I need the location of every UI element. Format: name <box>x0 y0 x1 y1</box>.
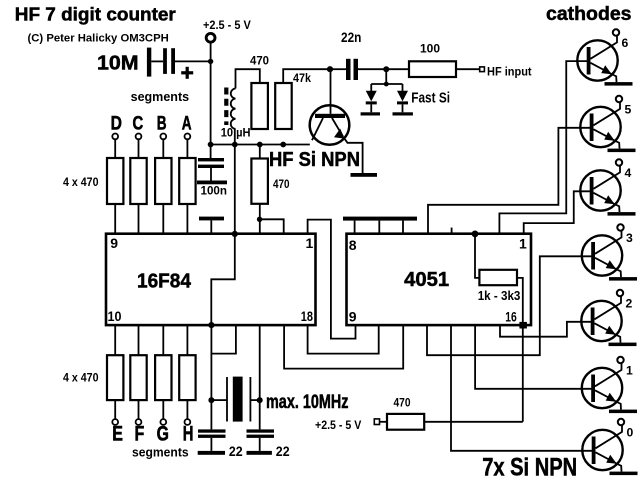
svg-text:segments: segments <box>131 89 190 104</box>
svg-text:B: B <box>157 112 167 134</box>
svg-text:4051: 4051 <box>404 269 449 291</box>
svg-text:9: 9 <box>349 309 357 325</box>
svg-text:22: 22 <box>229 443 243 459</box>
svg-text:1: 1 <box>626 364 633 378</box>
svg-text:Fast Si: Fast Si <box>411 90 450 106</box>
svg-text:4: 4 <box>625 166 632 180</box>
svg-text:HF Si NPN: HF Si NPN <box>269 149 360 171</box>
svg-text:+2.5 - 5 V: +2.5 - 5 V <box>203 20 251 32</box>
svg-text:+2.5 - 5 V: +2.5 - 5 V <box>315 420 362 432</box>
svg-text:470: 470 <box>273 177 290 191</box>
svg-text:10M: 10M <box>97 52 139 75</box>
svg-text:4 x 470: 4 x 470 <box>63 371 99 385</box>
svg-text:3: 3 <box>626 231 633 245</box>
svg-text:9: 9 <box>110 235 118 251</box>
svg-text:E: E <box>112 422 123 445</box>
svg-text:HF 7 digit counter: HF 7 digit counter <box>15 5 176 25</box>
svg-text:2: 2 <box>626 297 633 311</box>
svg-text:1: 1 <box>519 236 527 252</box>
svg-text:G: G <box>157 422 169 445</box>
svg-text:470: 470 <box>394 397 411 409</box>
svg-text:HF input: HF input <box>487 64 532 78</box>
svg-text:D: D <box>111 112 122 134</box>
svg-text:H: H <box>183 422 194 445</box>
svg-text:cathodes: cathodes <box>546 3 632 25</box>
svg-text:16F84: 16F84 <box>137 270 192 292</box>
svg-text:1: 1 <box>306 235 314 251</box>
svg-text:22: 22 <box>276 443 290 459</box>
svg-text:100n: 100n <box>201 184 228 198</box>
svg-text:C: C <box>133 112 144 134</box>
svg-text:0: 0 <box>627 426 634 440</box>
svg-text:A: A <box>182 112 192 134</box>
svg-text:1k - 3k3: 1k - 3k3 <box>478 288 521 303</box>
svg-text:22n: 22n <box>341 30 361 45</box>
svg-text:100: 100 <box>420 42 440 56</box>
svg-text:F: F <box>135 422 145 445</box>
svg-text:8: 8 <box>349 237 357 253</box>
svg-text:5: 5 <box>625 103 632 117</box>
svg-text:4 x 470: 4 x 470 <box>63 175 99 189</box>
svg-text:470: 470 <box>250 54 269 68</box>
svg-text:47k: 47k <box>293 71 311 85</box>
svg-text:segments: segments <box>132 444 189 459</box>
svg-text:7x Si NPN: 7x Si NPN <box>482 454 577 480</box>
svg-text:10: 10 <box>108 308 122 324</box>
svg-text:max. 10MHz: max. 10MHz <box>266 392 349 413</box>
svg-text:18: 18 <box>301 308 313 324</box>
svg-text:6: 6 <box>622 36 629 50</box>
svg-text:16: 16 <box>505 308 517 324</box>
svg-text:(C) Peter Halicky OM3CPH: (C) Peter Halicky OM3CPH <box>28 32 169 44</box>
